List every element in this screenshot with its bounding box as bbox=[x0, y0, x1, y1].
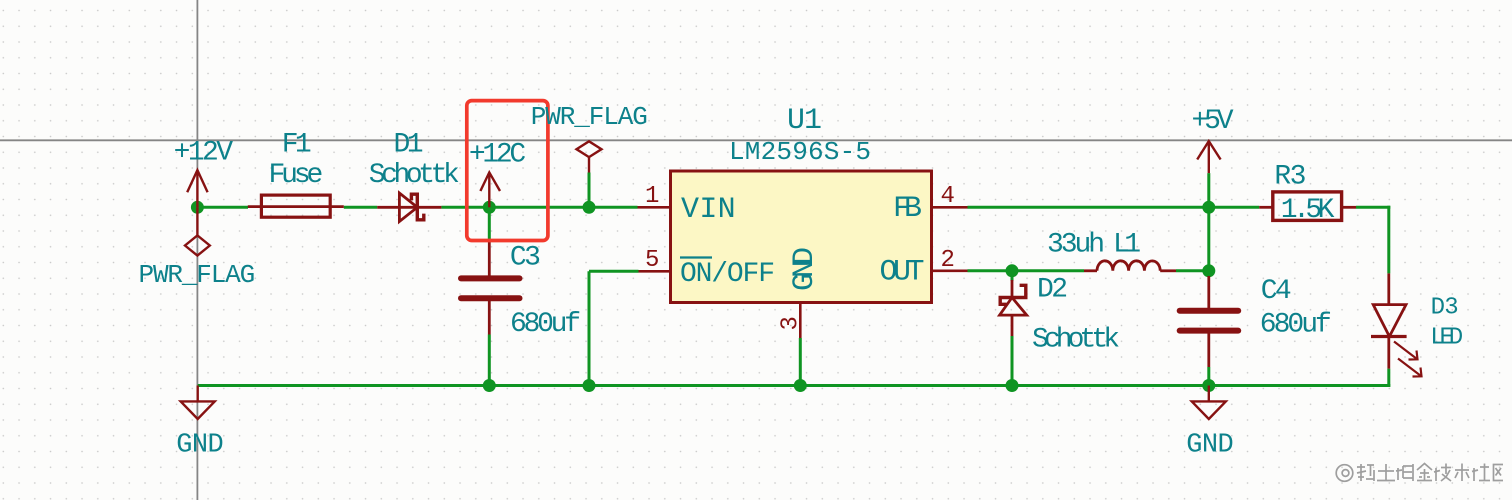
wire ON/OFF pin5 horizontal bbox=[589, 270, 639, 273]
junction PWR_FLAG node bbox=[583, 201, 596, 214]
pin name ON/OFF with overbar bbox=[680, 258, 775, 291]
wire C4 bottom to bus bbox=[1207, 367, 1210, 386]
svg-text:1: 1 bbox=[645, 183, 659, 210]
svg-text:2: 2 bbox=[941, 247, 955, 274]
svg-text:D2: D2 bbox=[1037, 275, 1068, 306]
svg-text:Fuse: Fuse bbox=[269, 160, 324, 191]
power symbol +12V arrow bbox=[187, 170, 207, 207]
svg-text:3: 3 bbox=[778, 316, 805, 330]
svg-text:Schottk: Schottk bbox=[369, 160, 460, 191]
wire +5V vertical bbox=[1207, 173, 1210, 276]
LED D3 bbox=[1371, 273, 1422, 376]
svg-text:PWR_FLAG: PWR_FLAG bbox=[531, 102, 648, 132]
ground GND left bbox=[181, 386, 215, 420]
junction bus D2 bbox=[1006, 379, 1019, 392]
svg-text:GND: GND bbox=[176, 430, 223, 460]
U1 pin 2 bbox=[932, 269, 968, 272]
junction +12C node bbox=[483, 201, 496, 214]
svg-text:GND: GND bbox=[1186, 430, 1233, 460]
highlight box around +12C bbox=[467, 101, 548, 241]
svg-text:R3: R3 bbox=[1274, 162, 1306, 193]
svg-text:LED: LED bbox=[1430, 325, 1463, 352]
junction +12V node bbox=[191, 201, 204, 214]
resistor R3 bbox=[1273, 192, 1342, 221]
svg-text:ON/OFF: ON/OFF bbox=[680, 259, 775, 290]
U1 pin 5 bbox=[639, 270, 671, 273]
junction OUT / D2 node bbox=[1006, 264, 1019, 277]
svg-text:GND: GND bbox=[788, 247, 822, 291]
ground GND right bbox=[1192, 386, 1226, 420]
svg-text:+12V: +12V bbox=[174, 138, 234, 169]
svg-text:U1: U1 bbox=[787, 104, 822, 138]
wire FB rail bbox=[968, 206, 1260, 209]
R3 pins bbox=[1259, 206, 1356, 209]
wire D1 to U1 pin1 bbox=[441, 206, 637, 209]
svg-text:C3: C3 bbox=[510, 242, 541, 273]
wire corner down to D3 bbox=[1387, 206, 1390, 274]
svg-text:Schottk: Schottk bbox=[1032, 325, 1120, 356]
svg-text:33uh: 33uh bbox=[1047, 230, 1105, 261]
svg-text:C4: C4 bbox=[1261, 276, 1292, 307]
junction bus pin3 bbox=[794, 379, 807, 392]
wire OUT pin2 to D2 node bbox=[968, 269, 1085, 272]
junction L1 / C4 node bbox=[1202, 264, 1215, 277]
junction bus ON/OFF bbox=[583, 379, 596, 392]
svg-text:F1: F1 bbox=[282, 129, 312, 160]
fuse F1 bbox=[248, 195, 344, 217]
wire between fuse and D1 bbox=[344, 206, 377, 209]
svg-text:+12C: +12C bbox=[469, 140, 526, 171]
wire C3 bottom bbox=[488, 335, 491, 386]
wire C3 top bbox=[488, 207, 491, 241]
U1 pin 1 bbox=[638, 206, 671, 209]
svg-text:+5V: +5V bbox=[1192, 106, 1234, 137]
svg-text:680uf: 680uf bbox=[510, 309, 581, 340]
inductor L1 bbox=[1084, 261, 1176, 271]
svg-text:LM2596S-5: LM2596S-5 bbox=[729, 137, 871, 167]
svg-text:D1: D1 bbox=[394, 129, 424, 160]
svg-text:OUT: OUT bbox=[880, 256, 925, 290]
svg-text:4: 4 bbox=[941, 183, 955, 210]
wire PWR_FLAG top to rail bbox=[588, 173, 591, 208]
junction +5V / FB node bbox=[1202, 201, 1215, 214]
svg-text:FB: FB bbox=[893, 192, 922, 226]
wire U1 pin3 to bus bbox=[799, 338, 802, 386]
wire R3 to corner bbox=[1356, 206, 1390, 209]
diode D2 Schottky bbox=[1000, 280, 1027, 336]
wire D2 top stub bbox=[1011, 271, 1014, 281]
power symbol +12C arrow bbox=[480, 172, 500, 207]
wire L1 right to +5V rail bbox=[1176, 269, 1209, 272]
power flag PWR_FLAG top: diamond and shaft bbox=[577, 141, 602, 172]
svg-text:1.5K: 1.5K bbox=[1281, 195, 1335, 226]
power symbol +5V arrow bbox=[1197, 141, 1220, 173]
wire D2 bottom to bus bbox=[1011, 336, 1014, 386]
wire D3 bottom to bus bbox=[1387, 369, 1390, 387]
svg-text:L1: L1 bbox=[1113, 230, 1141, 261]
wire ON/OFF vertical to bus bbox=[588, 271, 591, 385]
svg-text:PWR_FLAG: PWR_FLAG bbox=[139, 260, 256, 290]
junction bus C4 bbox=[1202, 379, 1215, 392]
wire bottom bus bbox=[198, 384, 1391, 387]
capacitor C3 bbox=[461, 241, 520, 334]
svg-text:VIN: VIN bbox=[681, 193, 736, 227]
watermark @稀土掘金技术社区 bbox=[1336, 464, 1503, 482]
svg-text:D3: D3 bbox=[1431, 295, 1459, 322]
U1 pin 4 bbox=[932, 206, 968, 209]
svg-text:5: 5 bbox=[645, 247, 659, 274]
IC U1 body bbox=[671, 171, 932, 303]
wire main +12V rail left segment bbox=[197, 206, 248, 209]
junction bus C3 bbox=[483, 379, 496, 392]
power flag PWR_FLAG left: shaft and diamond bbox=[185, 207, 210, 255]
diode D1 Schottky bbox=[377, 193, 441, 222]
U1 pin 3 bbox=[799, 303, 802, 339]
capacitor C4 bbox=[1180, 276, 1239, 367]
svg-text:680uf: 680uf bbox=[1260, 310, 1332, 341]
